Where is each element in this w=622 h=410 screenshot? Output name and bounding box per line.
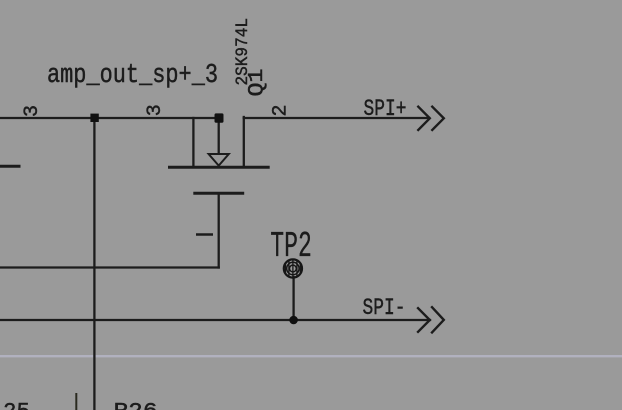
node B junction dot at Q1 body/drain tap <box>215 113 224 122</box>
svg-text:TP2: TP2 <box>270 226 312 267</box>
channel bar fragment of off-page transistor (left edge) <box>0 165 21 168</box>
wire TP2 lead <box>292 277 294 320</box>
transistor Q1 2SK974L (N-MOSFET) <box>168 154 270 193</box>
wire Q1 drain lead pin 2 <box>243 117 245 166</box>
node A junction dot on net amp_out_sp+_3 <box>90 114 98 122</box>
svg-text:SPI-: SPI- <box>363 295 406 321</box>
wire net SPI- horizontal <box>0 319 430 321</box>
svg-text:Q1: Q1 <box>246 69 269 97</box>
svg-text:3: 3 <box>21 105 44 117</box>
test point TP2 symbol <box>284 259 302 278</box>
wire Q1 source lead pin 3 <box>192 118 194 166</box>
Q1 gate bar <box>193 192 244 195</box>
wire drain to SPI+ connector <box>244 117 429 119</box>
svg-text:3: 3 <box>144 104 167 116</box>
Q1 channel bar <box>168 166 270 169</box>
Q1 body arrow <box>209 154 229 166</box>
grid highlight line <box>0 355 622 357</box>
node C junction dot on net SPI- at TP2 <box>289 316 298 325</box>
wire net amp_out_sp+_3 (top horizontal) <box>0 117 222 119</box>
svg-text:2: 2 <box>270 104 293 116</box>
svg-text:amp_out_sp+_3: amp_out_sp+_3 <box>47 61 218 91</box>
svg-text:SPI+: SPI+ <box>364 96 407 122</box>
svg-text:25: 25 <box>3 400 30 410</box>
svg-text:R26: R26 <box>114 400 158 410</box>
wire gate horizontal run <box>0 266 219 268</box>
off-page connector SPI- chevrons <box>417 306 444 333</box>
wire Q1 body lead <box>218 122 220 153</box>
wire Q1 gate lead vertical <box>218 195 220 268</box>
minus mark below gate <box>196 233 213 235</box>
component lead stub bottom <box>75 393 77 410</box>
off-page connector SPI+ chevrons <box>417 106 443 131</box>
wire vertical from junction A down <box>93 118 95 410</box>
